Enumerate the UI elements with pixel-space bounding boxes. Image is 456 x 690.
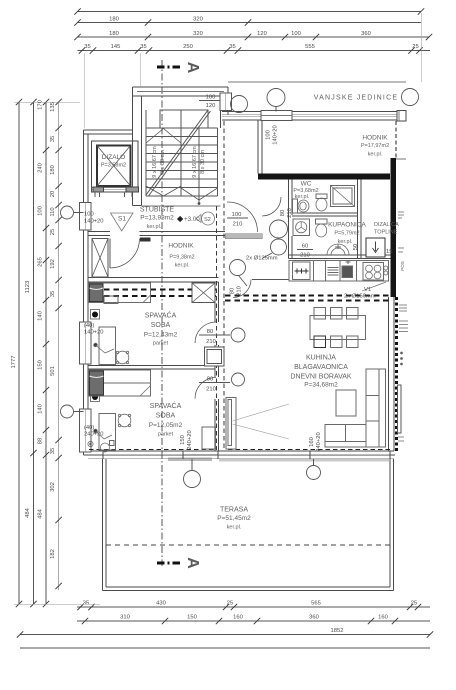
svg-text:210: 210 bbox=[300, 253, 310, 259]
svg-text:STUBIŠTE: STUBIŠTE bbox=[140, 205, 175, 214]
svg-text:210: 210 bbox=[206, 339, 216, 345]
svg-text:DIZALICA: DIZALICA bbox=[374, 222, 399, 228]
svg-text:140: 140 bbox=[38, 311, 44, 321]
svg-text:VANJSKE JEDINICE: VANJSKE JEDINICE bbox=[314, 95, 398, 102]
svg-text:501: 501 bbox=[50, 366, 56, 376]
svg-text:35: 35 bbox=[229, 44, 235, 50]
svg-text:35: 35 bbox=[50, 448, 56, 454]
svg-text:100: 100 bbox=[291, 31, 301, 37]
svg-text:9 x 16,67 cm: 9 x 16,67 cm bbox=[152, 146, 158, 178]
svg-text:8 x 30 cm: 8 x 30 cm bbox=[200, 150, 206, 174]
svg-text:360: 360 bbox=[309, 615, 319, 621]
svg-text:120: 120 bbox=[206, 103, 216, 109]
svg-text:120: 120 bbox=[257, 31, 267, 37]
svg-text:320: 320 bbox=[193, 17, 203, 23]
svg-text:1123: 1123 bbox=[25, 281, 31, 293]
svg-text:15: 15 bbox=[386, 249, 392, 255]
svg-text:25: 25 bbox=[411, 601, 417, 607]
svg-text:110: 110 bbox=[50, 207, 56, 216]
svg-text:P=34,68m2: P=34,68m2 bbox=[304, 382, 338, 389]
svg-text:140+20: 140+20 bbox=[84, 330, 104, 336]
svg-text:P=5,79m2: P=5,79m2 bbox=[334, 231, 359, 237]
svg-text:TOPLINE: TOPLINE bbox=[374, 230, 398, 236]
svg-text:20: 20 bbox=[50, 191, 56, 197]
svg-text:484: 484 bbox=[25, 507, 31, 517]
svg-text:SPAVAĆA: SPAVAĆA bbox=[145, 311, 177, 320]
svg-text:BLAGAVAONICA: BLAGAVAONICA bbox=[294, 364, 348, 371]
svg-text:555: 555 bbox=[305, 44, 315, 50]
svg-text:160: 160 bbox=[309, 437, 315, 447]
svg-text:240: 240 bbox=[38, 163, 44, 173]
svg-text:SOBA: SOBA bbox=[151, 322, 171, 329]
svg-text:parket: parket bbox=[153, 341, 169, 347]
svg-text:DNEVNI BORAVAK: DNEVNI BORAVAK bbox=[290, 374, 352, 381]
svg-text:265: 265 bbox=[38, 257, 44, 267]
svg-text:100: 100 bbox=[84, 212, 94, 218]
svg-text:ker.pl.: ker.pl. bbox=[227, 525, 242, 531]
svg-text:2x Ø125mm: 2x Ø125mm bbox=[246, 256, 278, 262]
svg-text:8 x 30 cm: 8 x 30 cm bbox=[160, 150, 166, 174]
svg-text:SPAVAĆA: SPAVAĆA bbox=[150, 401, 182, 410]
svg-text:80: 80 bbox=[207, 377, 213, 383]
svg-text:P=12,05m2: P=12,05m2 bbox=[149, 422, 183, 429]
svg-text:150: 150 bbox=[187, 615, 197, 621]
svg-text:210: 210 bbox=[206, 387, 216, 393]
svg-text:ker.pl.: ker.pl. bbox=[368, 152, 383, 158]
svg-text:(40): (40) bbox=[84, 425, 94, 431]
svg-text:170: 170 bbox=[38, 100, 44, 110]
svg-text:240+20: 240+20 bbox=[187, 430, 193, 450]
svg-text:35: 35 bbox=[50, 291, 56, 297]
svg-text:310: 310 bbox=[120, 615, 130, 621]
svg-text:192: 192 bbox=[50, 259, 56, 269]
svg-text:210: 210 bbox=[237, 286, 243, 296]
svg-text:POS: POS bbox=[400, 261, 405, 271]
svg-text:160: 160 bbox=[378, 615, 388, 621]
svg-text:100: 100 bbox=[266, 130, 272, 140]
svg-text:180: 180 bbox=[109, 31, 119, 37]
svg-text:A: A bbox=[184, 62, 201, 74]
svg-text:35: 35 bbox=[50, 136, 56, 142]
svg-text:320: 320 bbox=[193, 31, 203, 37]
svg-text:KUHINJA: KUHINJA bbox=[306, 355, 336, 362]
svg-text:HODNIK: HODNIK bbox=[362, 135, 388, 142]
svg-text:1777: 1777 bbox=[11, 356, 17, 369]
svg-text:P=12,43m2: P=12,43m2 bbox=[144, 332, 178, 339]
svg-text:HODNIK: HODNIK bbox=[168, 243, 194, 250]
svg-text:150: 150 bbox=[38, 360, 44, 370]
svg-text:88: 88 bbox=[38, 438, 44, 444]
svg-text:35: 35 bbox=[84, 44, 90, 50]
svg-text:9 x 16,67 cm: 9 x 16,67 cm bbox=[192, 146, 198, 178]
svg-text:TERASA: TERASA bbox=[220, 507, 248, 514]
svg-text:100: 100 bbox=[232, 212, 242, 218]
svg-text:140+20: 140+20 bbox=[84, 219, 104, 225]
svg-text:S2: S2 bbox=[204, 217, 211, 223]
svg-text:35: 35 bbox=[140, 44, 146, 50]
svg-text:80: 80 bbox=[280, 210, 286, 216]
svg-text:25: 25 bbox=[227, 601, 233, 607]
svg-text:KUPAONICA: KUPAONICA bbox=[328, 222, 366, 229]
svg-text:100: 100 bbox=[38, 206, 44, 216]
svg-text:P=17,97m2: P=17,97m2 bbox=[361, 143, 389, 149]
svg-text:2x Ø150mm: 2x Ø150mm bbox=[344, 294, 376, 300]
svg-text:WC: WC bbox=[301, 181, 312, 188]
svg-text:60: 60 bbox=[302, 244, 308, 250]
svg-text:DIZALO: DIZALO bbox=[102, 154, 125, 161]
svg-text:A: A bbox=[184, 557, 201, 569]
svg-text:210: 210 bbox=[233, 222, 243, 228]
svg-text:565: 565 bbox=[311, 601, 321, 607]
svg-text:35: 35 bbox=[83, 601, 89, 607]
svg-text:P=13,98m2: P=13,98m2 bbox=[140, 215, 174, 222]
svg-text:484: 484 bbox=[38, 508, 44, 518]
svg-text:180: 180 bbox=[50, 165, 56, 175]
svg-text:135: 135 bbox=[50, 102, 56, 112]
svg-text:+3.00: +3.00 bbox=[184, 216, 200, 223]
svg-text:(40): (40) bbox=[84, 323, 94, 329]
svg-text:V1: V1 bbox=[364, 287, 371, 293]
svg-text:180: 180 bbox=[109, 17, 119, 23]
svg-text:S1: S1 bbox=[118, 216, 126, 223]
svg-text:140+20: 140+20 bbox=[273, 125, 279, 145]
svg-text:parket: parket bbox=[158, 432, 174, 438]
svg-text:182: 182 bbox=[50, 549, 56, 559]
svg-text:50: 50 bbox=[353, 244, 359, 250]
svg-text:360: 360 bbox=[361, 31, 371, 37]
svg-text:150: 150 bbox=[180, 435, 186, 445]
svg-text:25: 25 bbox=[412, 44, 418, 50]
svg-text:1852: 1852 bbox=[331, 628, 344, 634]
svg-text:SOBA: SOBA bbox=[156, 413, 176, 420]
svg-text:240+20: 240+20 bbox=[84, 432, 104, 438]
svg-text:430: 430 bbox=[156, 601, 166, 607]
svg-text:160: 160 bbox=[233, 615, 243, 621]
svg-text:250: 250 bbox=[183, 44, 193, 50]
svg-text:P=3,58m2: P=3,58m2 bbox=[101, 163, 126, 169]
svg-text:25: 25 bbox=[50, 229, 56, 235]
svg-text:240+20: 240+20 bbox=[316, 432, 322, 452]
svg-text:P=9,38m2: P=9,38m2 bbox=[169, 255, 194, 261]
svg-text:100: 100 bbox=[206, 95, 216, 101]
svg-text:ker.pl.: ker.pl. bbox=[147, 224, 162, 230]
svg-text:P=51,45m2: P=51,45m2 bbox=[217, 515, 251, 522]
svg-text:80: 80 bbox=[230, 288, 236, 294]
svg-text:302: 302 bbox=[50, 482, 56, 492]
svg-text:140: 140 bbox=[38, 404, 44, 414]
svg-text:80: 80 bbox=[207, 329, 213, 335]
svg-text:145: 145 bbox=[111, 44, 121, 50]
svg-text:ker.pl.: ker.pl. bbox=[175, 263, 190, 269]
